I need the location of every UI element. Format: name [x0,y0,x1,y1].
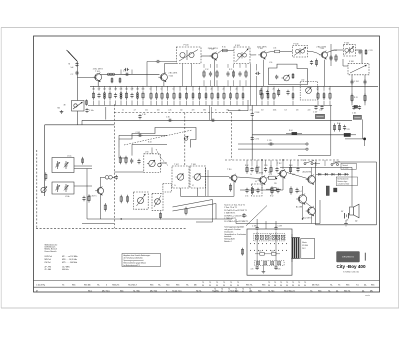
svg-text:470: 470 [192,110,195,112]
svg-text:T 102: T 102 [169,76,174,78]
svg-text:1nF: 1nF [71,67,74,69]
wire am drop 2 [216,64,218,68]
pot module tone [152,193,163,210]
page edge top [1,27,399,29]
wire drop if 9 [205,86,207,91]
wire drop fm 5 [120,86,122,90]
resistor R25b [179,92,181,100]
svg-text:1k: 1k [174,185,176,187]
text switch legend [224,203,248,223]
wire osc out [160,162,167,164]
svg-text:M5: M5 [58,108,60,110]
coil L15 [120,91,122,99]
svg-text:C 2: C 2 [71,74,74,76]
svg-text:F 101: F 101 [235,45,240,47]
resistor R216 [261,92,263,101]
svg-text:75,65 74,5: 75,65 74,5 [172,290,182,292]
capacitor C108 [320,105,323,109]
bus wire left short horizontal [45,124,115,126]
svg-text:R 52: R 52 [245,165,248,167]
capacitor C55 [275,167,278,173]
wire F100 out [201,55,211,57]
svg-text:96: 96 [274,285,276,287]
wire am drop 1 [210,64,212,68]
rail ground top band [88,105,332,107]
svg-text:96,5 965,74: 96,5 965,74 [284,290,295,292]
coil L45 on wire [266,48,292,53]
wire am drop 5 [239,64,241,68]
labels under ground rail [122,110,322,112]
wire shield y135 [119,134,167,136]
wire T111 collector up [261,160,263,175]
resistor R16 [125,91,127,100]
shield dashed vertical x231 [231,113,233,160]
svg-text:220: 220 [274,183,277,185]
wire T105 right [327,50,334,53]
wire drop if 3 [167,86,169,91]
capacitor C64 [276,188,279,194]
wire amp chain b [266,177,268,179]
schematic border frame [34,36,380,292]
capacitor C5 [124,73,130,76]
wire corner y222 [196,221,213,223]
wire module pair vertical b [207,170,209,196]
wire drop if 14 [236,86,238,91]
svg-text:135: 135 [120,88,123,90]
wire T104 emitter drop [262,60,264,87]
capacitor C40 [350,79,353,85]
svg-text:10µ: 10µ [268,172,271,174]
capacitor C83 [226,71,229,77]
svg-text:20: 20 [211,89,213,91]
shield dashed vertical x184 [184,113,186,166]
resistor R9x [241,248,243,256]
wire amp vertical a [282,178,284,190]
capacitor C11 [97,93,100,99]
svg-text:T 105: T 105 [320,48,325,50]
svg-text:7665,75: 7665,75 [112,284,120,286]
capacitor C3 [75,71,78,75]
module F107 [172,166,189,188]
dark junction dot [363,138,366,141]
electrolytic C81 [353,115,361,119]
switch bank outline [247,229,292,275]
svg-text:C 170: C 170 [255,139,260,141]
diode D3 [329,173,336,175]
svg-text:44,: 44, [362,290,365,292]
wire am drop 4 [233,64,235,68]
svg-text:4,7k: 4,7k [259,250,262,252]
capacitor C16 [138,114,141,119]
svg-text:16: 16 [185,89,187,91]
wire T113 collector up [311,167,313,175]
wire T101 vertical drop [105,107,107,120]
wire drop fm 9 [142,86,144,90]
svg-text:L 60: L 60 [301,80,304,82]
text frequency ranges [45,244,78,271]
svg-text:460 kHz: 460 kHz [62,269,69,271]
wire amp top rail [280,166,352,168]
wire shield y144 [132,143,167,145]
capacitor C17x [268,142,274,145]
wire drop if 1 [156,86,158,91]
wire to T105 base [312,52,317,54]
capacitor C107 [314,105,317,109]
svg-text:KW Teil: KW Teil [45,262,52,264]
wire R15 to F101 [229,50,234,52]
electrolytic on bus dark [344,133,351,136]
resistor R55 on wire [268,174,275,179]
volume wire diagonal a [173,200,213,208]
resistor R217b [267,92,269,100]
trimmer TR3 [55,184,60,192]
capacitor C30 [167,119,173,122]
svg-text:163: 163 [142,88,145,90]
tuning capacitor box C2a [63,101,84,112]
svg-text:M2 . . . ca 152 MHz: M2 . . . ca 152 MHz [62,256,78,258]
IF transformer F101 [234,45,250,64]
dashed linkage small [156,149,169,166]
wire am drop 6 [245,64,247,68]
jack line 2 [238,148,306,150]
transformer secondary box [301,239,315,259]
shield outline tuning linkage [119,128,196,148]
transistor T112 [278,169,287,178]
transistor T111 [256,173,266,185]
resistor R22 [292,73,294,79]
capacitor C69 [251,136,254,142]
svg-text:L 90: L 90 [145,152,148,154]
shield dashed horizontal y112 [114,112,231,114]
svg-text:2 Tast. 75 af T1: 2 Tast. 75 af T1 [224,206,237,209]
wire drop fm 8 [137,86,139,90]
capacitor C31 [210,119,215,122]
svg-text:GRUNDIG: GRUNDIG [342,257,354,259]
wire modules down b [197,188,199,196]
labels modules [174,185,194,187]
wire audio bend [229,177,231,178]
wire T101 collector [101,73,107,75]
shield dashed horizontal y228 [36,227,186,229]
svg-text:96: 96 [268,285,270,287]
svg-text:L 10b: L 10b [65,196,69,198]
wire amp drop 3 [265,160,267,166]
resistor R64 NTC dark [286,130,302,135]
svg-text:96: 96 [223,285,225,287]
svg-text:C 198: C 198 [252,225,256,227]
wire drop fm 1 [98,86,100,90]
resistor R56 [289,165,291,173]
wire dot down [364,140,366,146]
switch S1b contacts [331,161,340,165]
wire T115 down [311,215,313,224]
wire drop if 13 [230,86,232,91]
wire tuning box down [76,111,78,125]
wire amp in [233,181,235,196]
resistor R29b [205,92,207,100]
svg-text:ZF - FM: ZF - FM [45,266,52,268]
wire amp right drop [351,167,353,203]
wire bus lower y219 [87,218,232,220]
svg-text:Übertr.: Übertr. [302,241,308,244]
wire switch left [235,219,237,224]
electrolytic C80 [315,114,324,118]
svg-text:S 70850 / 205 /10: S 70850 / 205 /10 [343,271,360,273]
svg-text:4,7n: 4,7n [251,269,254,271]
svg-text:74,: 74, [330,284,333,286]
capacitor C81 [209,71,212,77]
wire amp chain a [237,177,260,179]
ground output [344,220,348,226]
resistor R15 on wire [218,47,230,54]
svg-text:R 15: R 15 [222,47,226,49]
svg-text:96: 96 [304,285,306,287]
svg-text:AC 188: AC 188 [296,206,302,209]
demodulator module F106 [348,61,369,75]
svg-text:156: 156 [136,88,139,90]
svg-text:F 103: F 103 [294,43,299,45]
svg-text:L 50: L 50 [269,62,272,64]
svg-text:R 62: R 62 [270,196,273,198]
svg-text:965 75,: 965 75, [246,284,253,286]
output enclosure top [333,161,377,163]
resistor R26 [185,92,187,101]
capacitor C57 [296,167,299,173]
svg-text:100k: 100k [273,110,277,112]
wire F105 to demod [355,49,362,51]
transistor T104 [257,47,267,60]
resistor R35 [82,157,84,165]
resistor R31 [125,156,127,165]
oscillator module L90 [144,152,161,173]
svg-text:44,: 44, [336,290,339,292]
svg-text:C 16: C 16 [142,114,146,116]
wire switch vertical a [256,219,258,227]
svg-text:F 106: F 106 [349,61,354,63]
svg-text:22n: 22n [145,110,148,112]
wire amp vertical b [302,186,304,195]
svg-text:76,: 76, [97,284,100,286]
wire F101 to T104 [250,54,256,56]
resistor R86 [245,70,247,78]
wire amp drop 8 [315,160,317,166]
resistor R54 [270,165,272,173]
parts list row 1 [36,284,375,286]
resistor R24 [173,92,175,101]
wire audio to T110 [201,176,229,178]
capacitor C56 [266,90,269,96]
resistor R65 [290,186,292,194]
wire drop if 10 [211,86,213,91]
wire base T101 [77,76,94,78]
resistor R213b [230,92,232,100]
wire amp long feedback [240,189,283,191]
switch ground inner [262,265,266,274]
wire amp chain d [305,202,312,207]
transistor T106 [147,160,155,167]
svg-text:R 64: R 64 [289,130,292,132]
wire amp drop 7 [297,160,299,166]
wire bus connect [81,120,83,125]
resistor R81 [159,212,161,220]
wire drop if 21 [323,86,325,91]
resistor R4 [119,77,121,83]
capacitor Ca [256,266,259,270]
wire right v330 [330,105,332,155]
capacitor C68 [251,112,254,118]
wire amp drop 0 [246,160,248,166]
capacitor C60 [245,188,248,194]
dashed module L60 [300,82,318,100]
diode D2 [323,173,330,175]
svg-text:C 176: C 176 [267,140,272,142]
svg-text:T 112: T 112 [277,163,281,165]
svg-text:Me 96,5: Me 96,5 [312,284,320,286]
svg-text:22: 22 [223,89,225,91]
wire coil pack right b [74,185,92,187]
svg-text:C 124: C 124 [354,81,359,83]
resistor R220 [317,92,319,101]
svg-text:96: 96 [237,285,239,287]
wire T111 emitter down [261,184,263,191]
capacitor C198 [256,226,259,230]
diode D4 [336,173,343,175]
resistor R214 [236,92,238,101]
resistor R27b [192,92,194,100]
capacitor C9 [155,60,161,63]
wire switch vertical c [265,221,267,229]
svg-text:52 0540: 52 0540 [302,245,308,247]
svg-text:2SC 36 T 5: 2SC 36 T 5 [88,196,97,198]
capacitor C119 [343,125,346,131]
switch row 3 [254,261,284,266]
page edge right [398,28,400,309]
capacitor C85 [238,71,241,77]
page edge left [0,28,2,309]
svg-text:10: 10 [150,89,152,91]
svg-text:T 110: T 110 [227,169,231,171]
switch dots row 2 [250,250,287,251]
wire drop if 8 [199,86,201,91]
wire right h155 [298,154,331,156]
transistor T107 [176,174,184,181]
wire C9 to F100 [161,61,177,63]
svg-text:4,7: 4,7 [192,185,194,187]
capacitor C105 [358,50,361,54]
resistor R80 [185,207,187,216]
junction amp c [302,218,303,219]
svg-text:12: 12 [161,89,163,91]
svg-text:47n: 47n [296,110,299,112]
svg-text:28: 28 [273,89,275,91]
svg-text:121: 121 [109,88,112,90]
resistor R19 [142,91,144,100]
wire drop if 20 [317,86,319,91]
wire drop fm 3 [109,86,111,90]
capacitor C14 [114,93,117,99]
dashed box F22 [163,184,172,193]
resistor R9 [86,99,88,105]
capacitor C2 [75,62,78,66]
wire shield corner b [131,144,133,155]
svg-text:1k: 1k [250,174,252,176]
wire drop if 22 [329,86,331,91]
transistor T108 [193,174,201,181]
wire drop if 18 [273,86,275,91]
wire demod wiring [342,59,344,66]
svg-text:C 61: C 61 [245,196,248,198]
svg-text:32: 32 [329,89,331,91]
capacitor C97 [329,56,332,61]
transistor mixer T20 [282,75,290,81]
pot arrow small [184,136,188,141]
wire drop if 16 [261,86,263,91]
resistor R38 [126,195,128,203]
wire drop fm 0 [93,86,95,90]
ground GND2 [60,110,64,113]
wire right v362 [362,119,364,138]
svg-text:1,5k: 1,5k [319,110,322,112]
pot module volume [134,192,149,209]
wire drop if 2 [161,86,163,91]
wire amp chain c [287,173,308,179]
wire bus y190 left [41,195,45,197]
resistor R211b [217,92,219,100]
svg-text:7445 965: 7445 965 [230,290,239,292]
capacitor Cb [274,266,277,270]
svg-text:R 21: R 21 [229,69,232,71]
svg-text:C 55: C 55 [264,165,267,167]
note box tolerances [122,254,161,268]
bus wire left vertical [44,125,46,196]
svg-text:1k: 1k [122,110,124,112]
terminal J1 [306,143,308,145]
svg-text:2,2k: 2,2k [271,250,274,252]
wire drop if 6 [186,86,188,91]
svg-text:96: 96 [242,291,244,293]
rail main top band [90,85,378,87]
svg-text:96: 96 [221,291,223,293]
svg-text:L 10a: L 10a [67,155,71,157]
transformer TR1 core [291,237,300,258]
resistor R215b [242,92,244,100]
capacitor C109 [352,105,355,109]
capacitor C25 [124,68,129,71]
capacitor C90 [242,213,245,218]
note box mains text [336,177,357,186]
transistor T103 [208,48,219,61]
junction j1 [121,218,122,219]
capacitor C53 [264,167,267,173]
transistor T109 [95,186,103,195]
wire osc top [151,148,153,154]
svg-text:96: 96 [202,285,204,287]
capacitor C66 [295,188,298,194]
wire T103 emitter drop [214,60,216,87]
resistor R30 [119,156,121,165]
switch dots row 1 [250,243,287,244]
resistor R218 [273,92,275,101]
resistor R28 [198,92,200,101]
dashed box feedback [252,184,263,196]
svg-text:T 108: T 108 [191,164,196,166]
svg-text:M75 . . . . 546 MHz: M75 . . . . 546 MHz [62,262,77,264]
svg-text:1 TWR GW T1: 1 TWR GW T1 [224,218,236,220]
svg-text:24: 24 [236,89,238,91]
svg-text:44,: 44, [364,284,367,286]
resistor R34 [88,194,90,202]
wire annotation diagonal [246,206,267,226]
